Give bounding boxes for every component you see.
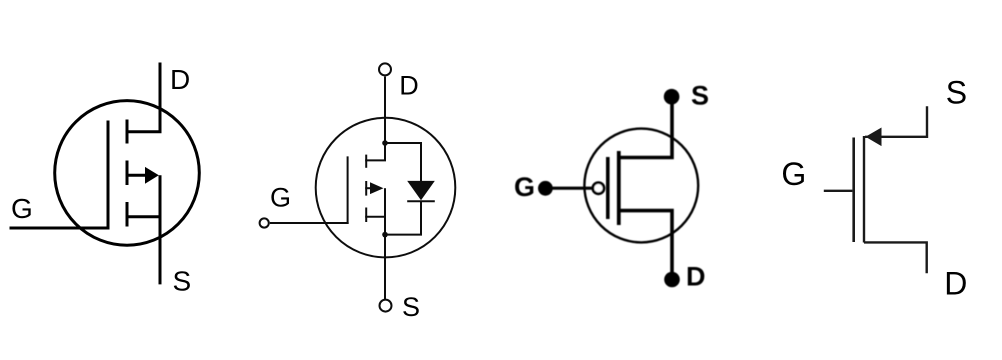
wire Q2 diode cathode branch (385, 201, 421, 234)
svg-text:S: S (691, 80, 709, 110)
arrow Q1 body arrowhead (145, 167, 159, 184)
svg-text:G: G (781, 156, 806, 192)
transistor Q2 channel segment bottom (365, 208, 367, 223)
transistor Q4 channel bar (863, 136, 865, 243)
wire Q3 gate lead (545, 187, 592, 190)
wire Q3 source lead (617, 103, 672, 158)
wire Q1 drain connection (126, 63, 161, 132)
transistor Q2 channel segment top (365, 155, 367, 168)
wire Q2 source lead (384, 188, 386, 299)
wire Q2 source bar (365, 216, 385, 218)
inverter bubble Q3 gate (593, 183, 604, 194)
terminal Q2 drain open circle (379, 63, 391, 75)
transistor Q3 body circle (584, 129, 698, 243)
svg-text:S: S (173, 265, 192, 296)
junction Q2 source node dot (382, 232, 388, 238)
transistor Q2 channel segment middle (365, 181, 367, 196)
terminal Q2 gate open circle (260, 218, 269, 227)
wire Q2 body bar (365, 187, 371, 189)
arrow Q4 source arrowhead (866, 128, 882, 147)
wire Q1 source lead (159, 175, 162, 284)
terminal Q3 gate dot (538, 181, 553, 196)
transistor Q1 body circle (55, 101, 200, 246)
wire Q4 source lead (865, 106, 927, 137)
wire Q1 body bar (126, 174, 148, 177)
transistor Q1 gate electrode (107, 121, 110, 230)
transistor Q3 channel bar (617, 151, 621, 225)
svg-text:S: S (402, 292, 420, 322)
wire Q2 gate lead (270, 222, 349, 224)
wire Q4 gate lead (824, 190, 853, 192)
svg-text:D: D (170, 64, 190, 95)
svg-text:D: D (944, 266, 967, 302)
wire Q1 gate lead (10, 227, 109, 230)
wire Q2 diode anode branch (385, 143, 421, 181)
wire Q1 source bar (126, 215, 161, 218)
transistor Q2 gate electrode (347, 156, 349, 224)
diode D1 body triangle (407, 181, 435, 200)
wire Q4 drain lead (864, 242, 927, 273)
svg-text:S: S (946, 74, 967, 110)
terminal Q3 source dot (664, 89, 680, 105)
svg-text:G: G (514, 172, 535, 202)
transistor Q1 channel segment middle (126, 161, 129, 186)
svg-text:G: G (11, 193, 33, 224)
diode D1 cathode bar (407, 200, 435, 202)
transistor Q1 channel segment top (126, 120, 129, 144)
transistor Q2 body circle (316, 118, 456, 258)
arrow Q2 body arrowhead (370, 182, 384, 194)
wire Q2 drain lead (365, 77, 385, 161)
terminal Q2 source open circle (380, 300, 392, 312)
junction Q2 drain node dot (382, 140, 388, 146)
svg-text:D: D (399, 70, 419, 100)
terminal Q3 drain dot (664, 272, 680, 288)
wire Q3 drain lead (617, 211, 672, 273)
svg-text:D: D (686, 262, 706, 292)
svg-text:G: G (270, 182, 291, 212)
transistor Q1 channel segment bottom (126, 202, 129, 227)
transistor Q4 gate bar (852, 138, 855, 243)
transistor Q3 gate bar (606, 157, 610, 219)
